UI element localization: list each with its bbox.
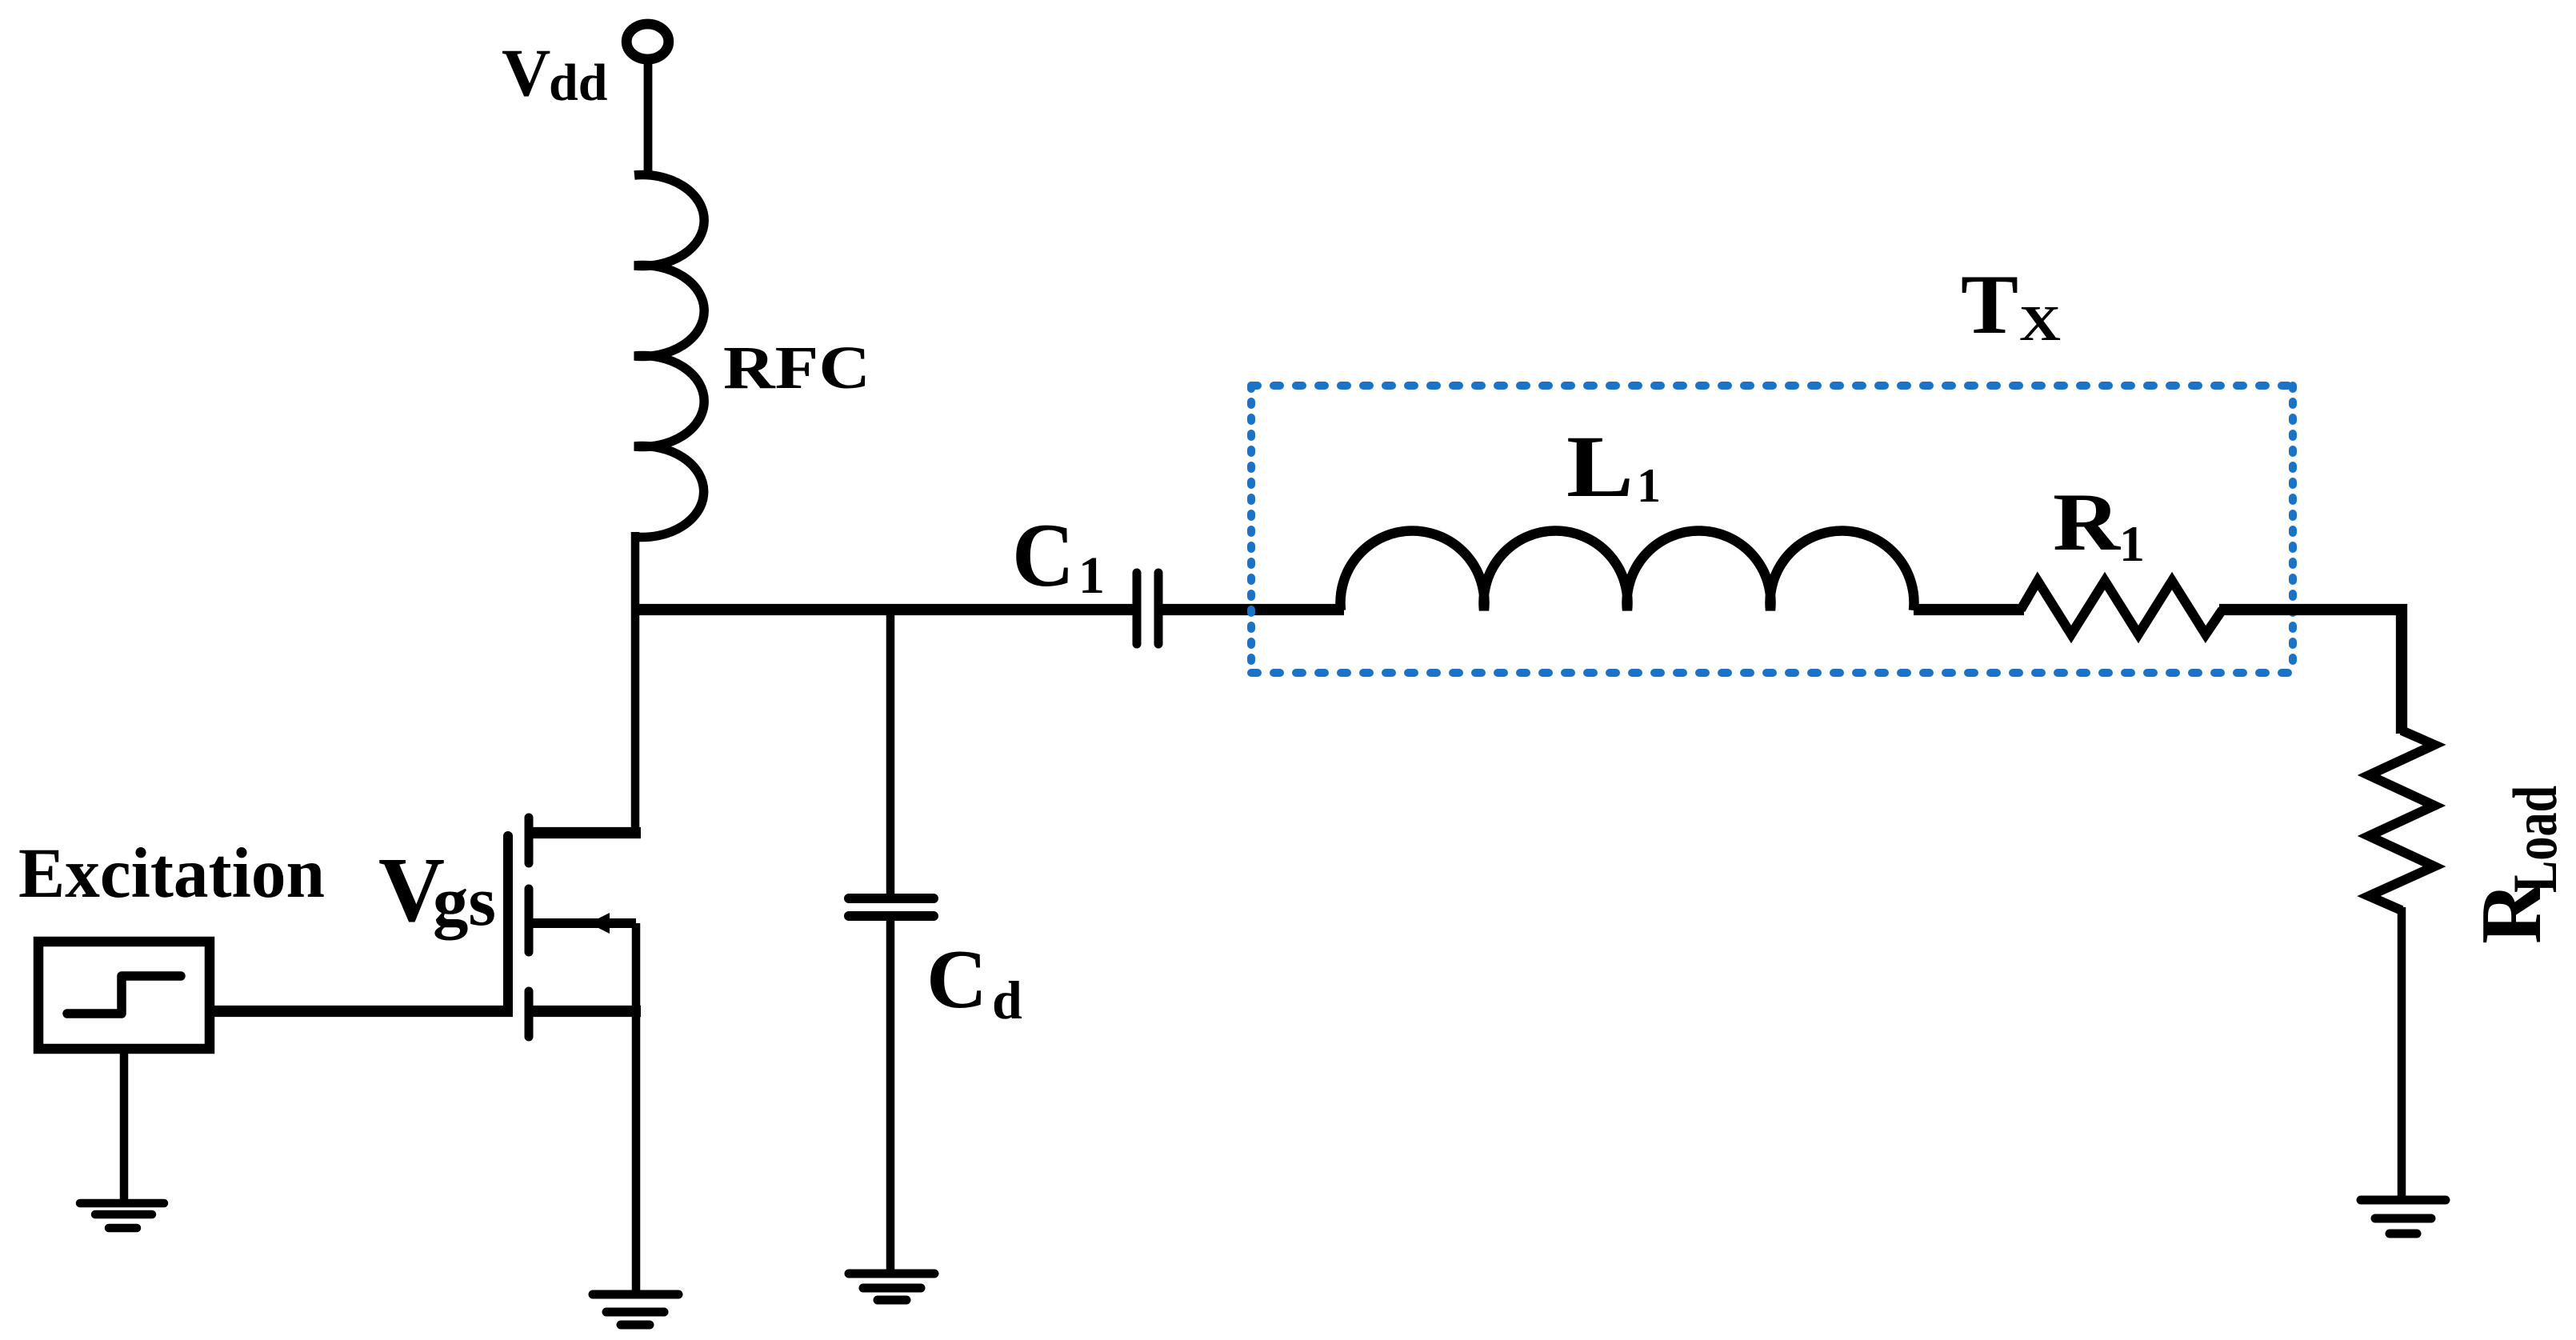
svg-text:C: C [1012,506,1074,606]
svg-text:T: T [1961,258,2018,351]
resistor RLoad [2369,730,2434,910]
svg-text:1: 1 [1078,546,1105,605]
transistor Q1 channel segments [525,818,534,1037]
inductor L1 [1341,531,1914,610]
svg-text:C: C [926,932,987,1026]
svg-text:Load: Load [2500,786,2570,893]
svg-text:gs: gs [433,863,496,941]
svg-text:d: d [992,970,1022,1030]
excitation step waveform [67,976,181,1014]
label Vdd [502,35,607,112]
svg-text:dd: dd [549,54,607,112]
wire R1 to RLoad corner [2219,610,2402,734]
label Cd [926,932,1022,1030]
wire RFC bottom to drain (vertical through node) [631,532,640,838]
svg-text:X: X [2019,297,2061,351]
inductor RFC [634,175,704,538]
capacitor C1 [1137,573,1158,644]
ground (RLoad) [2361,1200,2446,1234]
Tx dashed box [1251,386,2293,673]
transistor Q1 body arrow [589,913,610,934]
svg-text:1: 1 [2119,515,2145,572]
label L1 [1566,418,1661,515]
wire C1 to L1 [1162,604,1344,615]
transistor Q1 body line [529,918,636,928]
ground (Cd) [849,1274,934,1300]
transistor Q1 MOSFET gate bar [503,836,513,1010]
wire RLoad vertical [2397,730,2406,734]
ground (source) [593,1294,678,1325]
label Tx [1961,258,2061,351]
svg-text:1: 1 [1637,459,1661,512]
node Vdd terminal [626,24,669,59]
transistor Q1 drain tap [529,827,641,838]
label RLoad (rotated) [2464,786,2570,944]
wire Vdd to RFC [644,62,653,179]
svg-text:Excitation: Excitation [18,834,325,913]
wire drain node rail to C1 [631,604,1133,615]
ground (excitation) [80,1203,164,1228]
label R1 [2053,477,2145,572]
wire body/source to ground [632,923,641,1294]
wire excitation to gate [208,1006,513,1017]
wire excitation to ground [120,1049,129,1203]
capacitor Cd [849,898,934,916]
svg-text:L: L [1566,418,1634,515]
label Vgs [378,839,496,941]
wire Cd to ground [886,916,895,1274]
svg-text:R: R [2053,477,2122,568]
label C1 [1012,506,1105,606]
excitation source box [38,942,210,1049]
wire RLoad to ground [2398,907,2406,1200]
svg-text:V: V [502,35,550,110]
resistor R1 [2021,581,2222,634]
transistor Q1 source tap [529,1006,641,1017]
svg-text:RFC: RFC [723,334,870,402]
wire L1 to R1 [1914,604,2024,615]
wire node to Cd [886,610,895,898]
